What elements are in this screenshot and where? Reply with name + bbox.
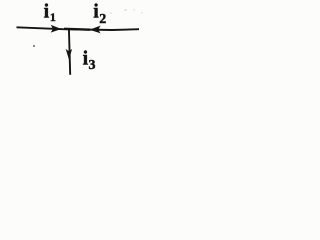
noise specks (scan artifacts) [110,12,112,14]
svg-text:1: 1 [50,10,56,24]
arrowhead i1 (current into node, pointing right) [51,25,62,33]
wire: thicker segment between node and i2 arrowhead [64,28,90,31]
svg-text:3: 3 [89,58,96,73]
svg-text:i: i [44,1,50,23]
arrowhead i2 (current into node, pointing left) [90,26,101,34]
wire: vertical conductor from node [69,28,70,74]
wire: horizontal conductor [17,27,140,30]
svg-text:2: 2 [99,12,106,27]
svg-text:i: i [93,1,99,23]
noise speck [33,45,35,47]
arrowhead i3 (current out of node, pointing down) [66,49,73,60]
